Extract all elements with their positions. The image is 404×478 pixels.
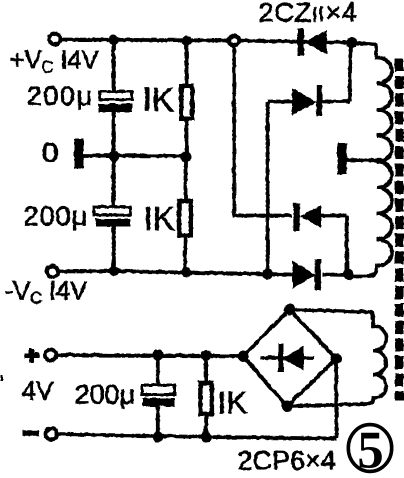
wire D2 branch <box>267 99 292 103</box>
scan speck left edge <box>0 375 3 381</box>
svg-text:4V: 4V <box>21 375 53 405</box>
svg-text:2CP6×4: 2CP6×4 <box>237 445 335 475</box>
svg-text:0: 0 <box>41 137 58 167</box>
node cap1/cap2 junction <box>108 150 119 161</box>
transformer T1 centre tap bar <box>337 143 346 175</box>
terminal 0 (bar) <box>74 138 84 168</box>
svg-text:200μ: 200μ <box>26 81 93 111</box>
figure number badge 5 <box>348 422 391 478</box>
node resistor3 bottom <box>200 431 211 442</box>
wire bottom rail -Vc <box>58 271 293 275</box>
diode D2 <box>292 85 350 117</box>
wire centre tap <box>346 158 382 162</box>
node resistor1 top <box>181 35 191 45</box>
node diode D4 anode <box>262 268 273 279</box>
wire minus rail <box>57 434 336 439</box>
node bridge bottom <box>281 401 292 412</box>
node bridge right <box>330 353 341 364</box>
node cap3 bottom <box>152 431 163 442</box>
terminal +Vc <box>49 33 60 44</box>
wire plus rail <box>56 355 243 356</box>
node resistor3 top <box>200 350 211 361</box>
diode D3 <box>293 203 346 231</box>
svg-text:IK: IK <box>143 200 174 237</box>
svg-text:IK: IK <box>142 81 173 118</box>
node bridge left <box>237 350 248 361</box>
wire D2 to top node <box>349 42 350 101</box>
capacitor C1 200u <box>98 40 132 156</box>
node bridge top <box>284 304 295 315</box>
node resistor1/resistor2 junction <box>180 151 191 162</box>
svg-text:5: 5 <box>357 422 384 478</box>
wire D2 anode down <box>265 101 269 274</box>
svg-text:200μ: 200μ <box>23 201 88 231</box>
transformer T1 primary winding <box>352 43 391 276</box>
diode D1 <box>297 28 327 55</box>
capacitor C2 200u <box>94 156 131 271</box>
terminal plus <box>24 348 56 362</box>
node cap2 bottom <box>108 266 118 276</box>
wire node A down <box>234 45 292 215</box>
node cap1 top <box>108 35 118 45</box>
wire D3 down to bottom rail <box>344 215 348 274</box>
node cap3 top <box>152 349 163 360</box>
bridge rectifier 2CP6 <box>243 309 336 406</box>
resistor R1 1K <box>181 40 192 156</box>
svg-text:200μ: 200μ <box>74 379 135 409</box>
capacitor C3 200u <box>142 355 175 437</box>
wire bridge right down <box>334 358 338 438</box>
node resistor2 bottom <box>181 267 191 277</box>
node diode D1 cathode-rail <box>346 37 357 48</box>
svg-text:IK: IK <box>217 384 247 420</box>
transformer core (dashed) <box>395 58 404 400</box>
terminal -Vc <box>47 266 58 277</box>
wire 0 rail <box>83 153 185 157</box>
node A (hollow junction) <box>229 35 239 45</box>
svg-text:+VC I4V: +VC I4V <box>9 44 99 76</box>
resistor R2 1K <box>179 156 191 273</box>
wire top rail +Vc <box>60 39 374 44</box>
diode D4 <box>292 259 348 290</box>
resistor R3 1K <box>200 355 212 437</box>
terminal minus <box>22 428 56 439</box>
svg-text:2CZII×4: 2CZII×4 <box>258 0 357 27</box>
node transformer bottom <box>343 269 354 280</box>
transformer T2 secondary winding <box>287 309 386 406</box>
svg-text:-VC I4V: -VC I4V <box>4 275 87 307</box>
